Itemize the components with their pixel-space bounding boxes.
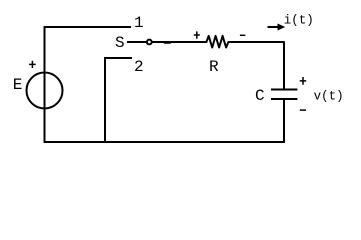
svg-text:2: 2 [134, 58, 144, 76]
svg-text:1: 1 [134, 14, 144, 32]
svg-text:i(t): i(t) [284, 14, 314, 28]
svg-text:S: S [115, 34, 125, 52]
svg-text:C: C [255, 87, 265, 105]
svg-text:E: E [13, 76, 23, 94]
svg-text:R: R [209, 58, 219, 76]
svg-text:v(t): v(t) [314, 90, 344, 104]
